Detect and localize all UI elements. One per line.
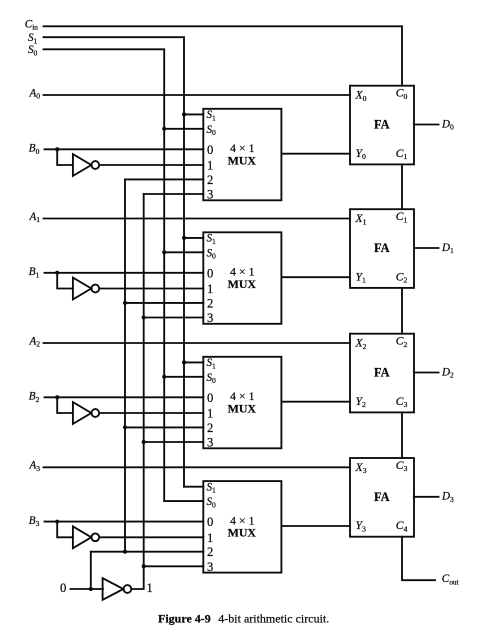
wire inverter B3 output to MUX input 1 (101, 536, 204, 538)
svg-text:3: 3 (207, 311, 213, 325)
wire A3 to FA X3 (44, 466, 351, 468)
junction constant-1 bus at MUX1 (142, 316, 146, 320)
wire MUX1 output to FA Y1 (281, 276, 350, 278)
wire inverter B1 output to MUX input 1 (101, 288, 204, 290)
svg-text:2: 2 (207, 545, 213, 559)
wire S0 stub to MUX3 (164, 500, 203, 502)
svg-text:FA: FA (374, 118, 390, 132)
inverter B1 (NOT gate) (73, 278, 99, 300)
svg-text:D1: D1 (441, 242, 454, 255)
wire A2 to FA X2 (44, 342, 351, 344)
wire constant-1 to MUX2 input 3 (144, 441, 204, 443)
svg-text:S1: S1 (207, 482, 217, 495)
wire S1 bus (44, 37, 185, 487)
wire S1 stub to MUX0 (184, 113, 203, 115)
wire 0-line to MUX3 input 2 (91, 551, 204, 553)
svg-text:S1: S1 (207, 357, 217, 370)
wire D3 output (414, 496, 439, 498)
full-adder FA2 box (350, 334, 414, 413)
svg-text:Cout: Cout (442, 573, 460, 586)
wire S0 bus (44, 49, 165, 501)
svg-text:A3: A3 (29, 460, 41, 473)
svg-text:X1: X1 (355, 212, 367, 226)
svg-text:1: 1 (147, 581, 153, 595)
junction constant-0 branch (89, 587, 93, 591)
wire MUX3 output to FA Y3 (281, 525, 350, 527)
svg-text:3: 3 (207, 560, 213, 574)
svg-text:0: 0 (207, 266, 213, 280)
wire B1 to MUX input 0 (45, 272, 204, 274)
junction constant-0 bus at MUX2 (123, 425, 127, 429)
svg-text:FA: FA (374, 490, 390, 504)
svg-text:MUX: MUX (228, 277, 257, 291)
wire D2 output (414, 372, 439, 374)
svg-text:0: 0 (60, 581, 66, 595)
junction B2 branch (55, 395, 59, 399)
svg-text:3: 3 (207, 436, 213, 450)
wire B3 to MUX input 0 (45, 521, 204, 523)
mux U2 4x1 MUX box (203, 232, 281, 323)
svg-text:0: 0 (207, 143, 213, 157)
junction B0 branch (55, 147, 59, 151)
wire inverter B0 output to MUX input 1 (101, 164, 204, 166)
svg-text:C2: C2 (396, 335, 408, 349)
mux U3 4x1 MUX box (203, 357, 281, 449)
svg-text:C3: C3 (396, 395, 408, 409)
inverter constant (NOT gate making 1) (103, 578, 132, 600)
svg-text:D0: D0 (441, 118, 454, 131)
wire constant-1 to MUX0 input 3 (144, 193, 204, 195)
full-adder FA3 box (350, 458, 414, 537)
svg-text:S0: S0 (207, 247, 217, 260)
junction S0 bus at MUX0 (162, 127, 166, 131)
wire MUX0 output to FA Y0 (281, 153, 350, 155)
wire carry C2 from FA1 to FA2 (401, 288, 403, 334)
junction B3 branch (55, 520, 59, 524)
svg-text:S1: S1 (207, 109, 217, 122)
svg-text:A2: A2 (29, 335, 41, 348)
wire B2 branch to inverter (57, 397, 73, 413)
wire D1 output (414, 247, 439, 249)
svg-text:X2: X2 (355, 337, 367, 351)
wire B1 branch to inverter (57, 273, 73, 289)
svg-text:B3: B3 (29, 515, 40, 528)
wire constant-1 bus vertical (143, 194, 145, 566)
mux U4 4x1 MUX box (203, 481, 281, 572)
wire S0 stub to MUX1 (164, 251, 203, 253)
mux U1 4x1 MUX box (203, 109, 281, 201)
svg-text:FA: FA (374, 241, 390, 255)
wire carry C3 from FA2 to FA3 (401, 412, 403, 458)
junction B1 branch (55, 271, 59, 275)
wire Cin vertical into FA0 carry-in (401, 26, 403, 85)
svg-text:C2: C2 (396, 270, 408, 284)
svg-text:B0: B0 (29, 143, 40, 156)
svg-text:C4: C4 (396, 519, 408, 533)
svg-text:C0: C0 (396, 87, 408, 101)
inverter B2 (NOT gate) (73, 402, 99, 424)
svg-text:1: 1 (207, 159, 213, 173)
svg-text:B1: B1 (29, 266, 40, 279)
junction constant-0 bus at MUX1 (123, 301, 127, 305)
wire S0 stub to MUX2 (164, 376, 203, 378)
svg-text:D2: D2 (441, 366, 454, 379)
svg-text:Y2: Y2 (356, 395, 366, 409)
inverter B0 (NOT gate) (73, 154, 99, 176)
junction constant-1 bus at MUX3 (142, 564, 146, 568)
wire S0 stub to MUX0 (164, 128, 203, 130)
svg-text:3: 3 (207, 188, 213, 202)
junction S1 bus at MUX0 (182, 112, 186, 116)
svg-text:MUX: MUX (228, 526, 257, 540)
full-adder FA0 box (350, 86, 414, 165)
wire constant-0 to MUX1 input 2 (125, 302, 203, 304)
svg-text:S0: S0 (207, 124, 217, 137)
svg-text:1: 1 (207, 407, 213, 421)
svg-text:0: 0 (207, 391, 213, 405)
svg-text:0: 0 (207, 515, 213, 529)
full-adder FA1 box (350, 209, 414, 288)
junction S0 bus at MUX2 (162, 375, 166, 379)
svg-text:Y0: Y0 (356, 147, 366, 161)
wire constant-0 source line (71, 588, 104, 590)
wire A1 to FA X1 (44, 218, 351, 220)
wire B2 to MUX input 0 (45, 396, 204, 398)
svg-text:S1: S1 (207, 233, 217, 246)
wire B3 branch to inverter (57, 522, 73, 538)
junction S1 bus at MUX2 (182, 360, 186, 364)
wire S1 stub to MUX3 (184, 486, 203, 488)
svg-text:Figure 4-94-bit arithmetic cir: Figure 4-94-bit arithmetic circuit. (158, 612, 329, 626)
svg-text:1: 1 (207, 531, 213, 545)
svg-text:2: 2 (207, 173, 213, 187)
wire constant-1 to MUX3 input 3 (144, 565, 204, 567)
wire D0 output (414, 124, 439, 126)
svg-text:X3: X3 (355, 461, 367, 475)
svg-text:2: 2 (207, 296, 213, 310)
svg-text:B2: B2 (29, 391, 40, 404)
svg-text:2: 2 (207, 421, 213, 435)
wire A0 to FA X0 (44, 94, 351, 96)
junction constant-0 bus at MUX3 (123, 550, 127, 554)
wire inverter B2 output to MUX input 1 (101, 412, 204, 414)
wire Cin horizontal (44, 25, 403, 27)
wire B0 branch to inverter (57, 149, 73, 165)
wire constant-0 to MUX2 input 2 (125, 426, 203, 428)
svg-text:C3: C3 (396, 459, 408, 473)
svg-text:S0: S0 (207, 496, 217, 509)
wire MUX2 output to FA Y2 (281, 401, 350, 403)
svg-text:S0: S0 (207, 372, 217, 385)
svg-text:Cin: Cin (25, 18, 38, 31)
wire constant-0 bus vertical (124, 179, 126, 551)
svg-text:C1: C1 (396, 147, 408, 161)
svg-text:1: 1 (207, 282, 213, 296)
svg-text:D3: D3 (441, 491, 454, 504)
svg-text:FA: FA (374, 366, 390, 380)
wire inverter output (constant 1) up to constant-1 bus (131, 566, 143, 589)
svg-text:MUX: MUX (228, 401, 257, 415)
svg-text:Y3: Y3 (356, 519, 366, 533)
svg-text:C1: C1 (396, 210, 408, 224)
wire S1 stub to MUX2 (184, 361, 203, 363)
wire constant-0 up to MUX3 input 2 row (90, 552, 92, 589)
wire constant-1 to MUX1 input 3 (144, 317, 204, 319)
svg-text:Y1: Y1 (356, 270, 366, 284)
svg-text:A1: A1 (29, 211, 41, 224)
svg-text:S0: S0 (28, 44, 38, 57)
svg-text:MUX: MUX (228, 153, 257, 167)
junction constant-1 bus at MUX2 (142, 440, 146, 444)
wire constant-0 to MUX0 input 2 (125, 178, 203, 180)
wire Cout from FA3 (402, 537, 435, 581)
junction S1 bus at MUX1 (182, 236, 186, 240)
junction S0 bus at MUX1 (162, 250, 166, 254)
wire B0 to MUX input 0 (45, 148, 204, 150)
wire carry C1 from FA0 to FA1 (401, 164, 403, 209)
inverter B3 (NOT gate) (73, 526, 99, 548)
svg-text:A0: A0 (29, 87, 41, 100)
wire S1 stub to MUX1 (184, 237, 203, 239)
svg-text:X0: X0 (355, 89, 367, 103)
